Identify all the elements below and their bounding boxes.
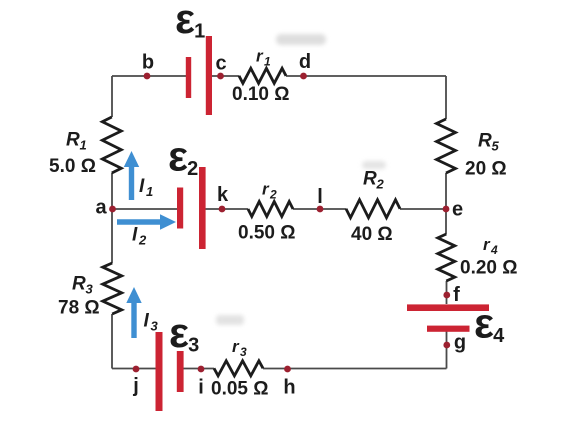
svg-text:i: i bbox=[198, 377, 204, 399]
svg-text:a: a bbox=[95, 197, 107, 219]
svg-text:I: I bbox=[139, 176, 145, 197]
svg-text:2: 2 bbox=[376, 177, 385, 192]
svg-text:k: k bbox=[217, 184, 229, 206]
svg-text:78 Ω: 78 Ω bbox=[58, 298, 100, 319]
svg-text:I: I bbox=[144, 311, 150, 332]
svg-text:0.10 Ω: 0.10 Ω bbox=[232, 84, 290, 105]
svg-text:0.50 Ω: 0.50 Ω bbox=[238, 223, 296, 244]
svg-text:3: 3 bbox=[188, 335, 199, 357]
svg-text:5.0 Ω: 5.0 Ω bbox=[49, 156, 96, 177]
svg-text:R: R bbox=[66, 130, 80, 151]
svg-text:1: 1 bbox=[80, 138, 87, 153]
svg-text:R: R bbox=[72, 274, 86, 295]
svg-text:f: f bbox=[453, 284, 460, 306]
svg-text:5: 5 bbox=[492, 139, 500, 154]
svg-text:20 Ω: 20 Ω bbox=[465, 159, 507, 180]
svg-text:2: 2 bbox=[187, 158, 198, 180]
svg-text:ε: ε bbox=[175, 0, 195, 42]
svg-text:I: I bbox=[132, 225, 138, 246]
svg-text:3: 3 bbox=[151, 319, 159, 334]
svg-text:1: 1 bbox=[146, 184, 153, 199]
svg-text:0.20 Ω: 0.20 Ω bbox=[460, 258, 518, 279]
svg-text:b: b bbox=[142, 52, 154, 74]
svg-text:1: 1 bbox=[194, 21, 205, 43]
svg-text:2: 2 bbox=[138, 233, 147, 248]
svg-text:h: h bbox=[283, 377, 295, 399]
svg-text:3: 3 bbox=[86, 282, 94, 297]
svg-text:g: g bbox=[454, 332, 466, 354]
svg-text:r: r bbox=[483, 235, 491, 254]
svg-text:j: j bbox=[132, 375, 139, 397]
svg-text:0.05 Ω: 0.05 Ω bbox=[211, 379, 269, 400]
svg-text:d: d bbox=[299, 51, 311, 73]
svg-text:l: l bbox=[317, 186, 323, 208]
svg-text:40 Ω: 40 Ω bbox=[351, 224, 393, 245]
svg-text:r: r bbox=[262, 180, 270, 199]
svg-text:R: R bbox=[478, 131, 492, 152]
svg-text:e: e bbox=[452, 199, 463, 221]
svg-text:ε: ε bbox=[474, 300, 494, 347]
svg-text:c: c bbox=[215, 53, 226, 75]
svg-text:ε: ε bbox=[168, 133, 188, 180]
svg-text:4: 4 bbox=[493, 325, 505, 347]
svg-text:r: r bbox=[256, 47, 264, 66]
svg-text:3: 3 bbox=[240, 345, 247, 359]
svg-text:R: R bbox=[363, 169, 377, 190]
svg-text:4: 4 bbox=[490, 243, 498, 257]
svg-text:ε: ε bbox=[169, 309, 189, 356]
svg-text:1: 1 bbox=[264, 55, 271, 69]
svg-text:2: 2 bbox=[269, 188, 277, 202]
svg-text:r: r bbox=[232, 337, 240, 356]
